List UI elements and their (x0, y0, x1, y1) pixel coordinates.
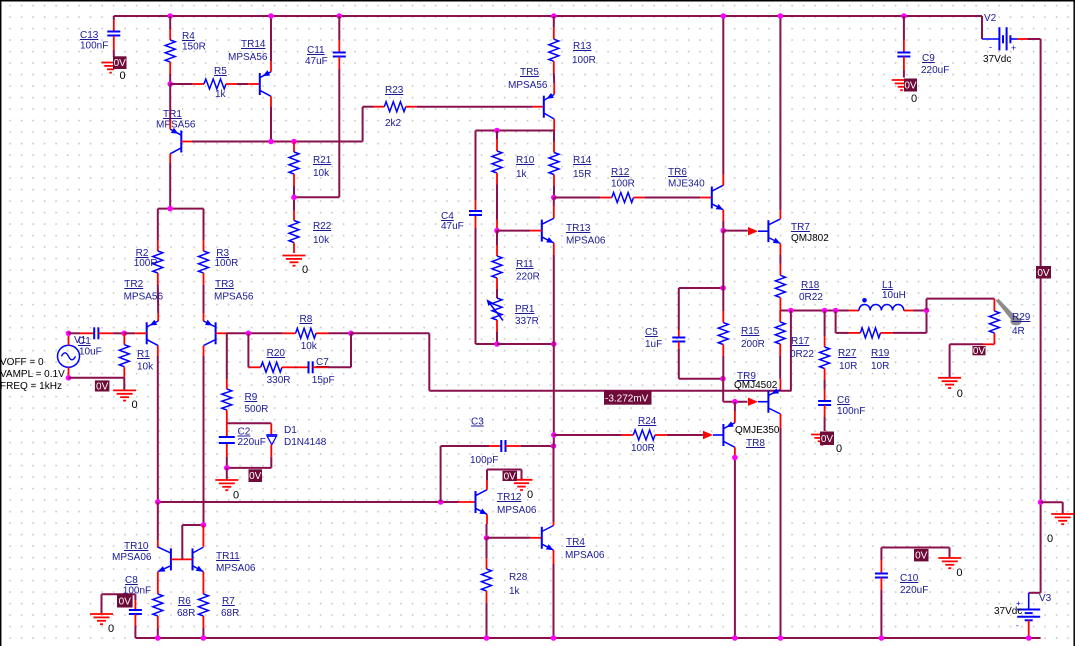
junction R8 right / C7 branch (348, 331, 354, 337)
svg-text:+: + (1016, 599, 1021, 608)
svg-text:+: + (1011, 43, 1016, 53)
ground 0 below R22 (283, 256, 309, 277)
resistor R20 (261, 348, 291, 386)
resistor R23 (384, 85, 406, 129)
capacitor C8 (123, 575, 151, 614)
ground 0 right edge (1047, 514, 1074, 545)
wire TR8 base blue (713, 434, 723, 436)
svg-text:D1N4148: D1N4148 (284, 437, 327, 448)
wire R8 right pin (316, 332, 351, 334)
bias label -3.272mV (604, 391, 652, 405)
wire V1 to C1 (69, 332, 95, 334)
battery V3 37Vdc (994, 593, 1052, 630)
junction TR3 base / R8 / R20 (246, 331, 252, 337)
wire TR8 emitter up (734, 402, 736, 423)
junction C3 / TR13-TR4 column (551, 443, 557, 449)
svg-text:0: 0 (527, 489, 533, 501)
resistor R28 (482, 569, 528, 597)
wire R24 right to TR8 base (655, 434, 703, 436)
svg-text:R7: R7 (222, 596, 235, 607)
wire R4 bottom pin (169, 62, 171, 84)
junction R10/R11/TR13 base (494, 228, 500, 234)
svg-text:R20: R20 (267, 348, 286, 359)
svg-text:100R: 100R (572, 55, 596, 66)
junction top rail / C9 (901, 13, 907, 19)
wire D1 top pin (270, 423, 272, 434)
wire R14 top pin (553, 131, 555, 153)
svg-text:TR5: TR5 (520, 67, 539, 78)
wire TR14 emitter to rail (270, 16, 272, 72)
junction R4/R5/TR1 (167, 81, 173, 87)
junction bus / output tap (788, 308, 794, 314)
wire R29 bottom pin (950, 333, 995, 377)
svg-text:0V: 0V (96, 381, 109, 392)
svg-text:VOFF = 0: VOFF = 0 (0, 357, 44, 368)
svg-text:0V: 0V (249, 471, 262, 482)
wire R22 bottom pin (293, 243, 295, 254)
wire to V3 (1029, 592, 1041, 594)
transistor TR4 MPSA06 (542, 526, 605, 562)
wire ground tap right (1041, 502, 1063, 513)
wire C6 bottom pin (824, 405, 826, 431)
junction bus / R27 (822, 308, 828, 314)
junction top rail / TR7 (778, 13, 784, 19)
wire C8 bottom pin (134, 614, 136, 638)
junction TR13 emitter column (551, 341, 557, 347)
svg-text:MPSA56: MPSA56 (214, 292, 254, 303)
svg-text:MJE340: MJE340 (668, 179, 705, 190)
junction C2 / D1 / ground (224, 465, 230, 471)
wire R11 top pin (496, 231, 498, 256)
transistor TR12 MPSA06 (476, 490, 537, 516)
svg-text:1uF: 1uF (645, 339, 662, 350)
svg-text:10k: 10k (313, 235, 330, 246)
svg-text:0V: 0V (973, 346, 986, 357)
wire C9 bottom pin (903, 57, 905, 78)
junction TR1 collector node (167, 206, 173, 212)
svg-text:R18: R18 (801, 280, 820, 291)
svg-text:0V: 0V (1037, 268, 1050, 279)
svg-text:10k: 10k (313, 168, 330, 179)
svg-text:MPSA56: MPSA56 (124, 292, 164, 303)
label 0 at C13 ground (120, 70, 126, 82)
wire R12 left (554, 197, 612, 199)
svg-text:R15: R15 (741, 326, 760, 337)
wire R14 bottom pin (553, 175, 555, 198)
svg-text:0V: 0V (821, 434, 834, 445)
svg-text:10k: 10k (137, 362, 154, 373)
ground 0 below C6 (811, 435, 842, 456)
wire C2 top pin (226, 423, 228, 436)
wire TR13 emitter down (553, 243, 555, 344)
resistor R18 (775, 275, 823, 303)
svg-text:500R: 500R (245, 404, 269, 415)
resistor R6 (153, 594, 196, 619)
svg-text:0: 0 (956, 567, 962, 579)
transistor TR10 MPSA06 (112, 541, 171, 572)
svg-text:10R: 10R (871, 361, 889, 372)
viewpoint 0V at TR12 (503, 471, 518, 483)
wire R28 top pin (486, 538, 488, 569)
wire R7 bottom pin (202, 616, 204, 638)
svg-text:330R: 330R (267, 375, 291, 386)
svg-text:TR10: TR10 (124, 541, 149, 552)
viewpoint 0V at V1 ground (95, 380, 110, 392)
wire R19 right (881, 310, 927, 333)
resistor R17 (775, 322, 814, 360)
wire C13 top pin (113, 16, 115, 31)
transistor TR3 MPSA56 (204, 279, 254, 346)
junction bottom rail / TR8 (732, 635, 738, 641)
current arrow into TR7 base (748, 227, 758, 235)
wire R23 right to TR5 base (406, 106, 544, 108)
wire R1 top pin (123, 333, 125, 344)
svg-text:0: 0 (302, 264, 308, 276)
svg-text:R4: R4 (182, 31, 195, 42)
junction TR1 base wire / TR14 collector (268, 139, 274, 145)
wire TR8 collector down (734, 447, 736, 638)
wire R2 top pin (157, 209, 159, 251)
junction R24 tap (551, 432, 557, 438)
wire C3 branch (441, 446, 502, 502)
wire C3 right (506, 445, 554, 447)
wire R6 bottom pin (157, 616, 159, 638)
svg-text:C9: C9 (922, 53, 935, 64)
svg-text:R23: R23 (385, 85, 404, 96)
svg-text:FREQ = 1kHz: FREQ = 1kHz (0, 381, 62, 392)
wire TR4 collector up (553, 446, 555, 526)
wire R13 bottom / TR5 emitter (553, 61, 555, 94)
wire V1 top pin (68, 333, 70, 345)
wire TR3 base right (216, 332, 283, 334)
wire R20 branch left (248, 333, 260, 367)
wire output bus (780, 310, 849, 312)
resistor R14 (549, 153, 592, 181)
wire R22 top pin (293, 210, 295, 221)
wire R23 left (363, 107, 385, 142)
svg-text:TR6: TR6 (668, 167, 687, 178)
wire R21 bottom (293, 174, 295, 210)
junction bottom rail / R7 (201, 635, 207, 641)
svg-text:PR1: PR1 (515, 304, 535, 315)
junction TR6 emitter / TR7 base (721, 228, 727, 234)
wire TR11 emitter to R7 (202, 572, 204, 594)
svg-text:R29: R29 (1012, 312, 1031, 323)
wire C10 top branch (881, 548, 949, 558)
svg-text:0: 0 (836, 443, 842, 455)
wire output tap down to output wire (790, 311, 792, 391)
potentiometer PR1 (487, 298, 539, 327)
wire TR13 collector (553, 198, 555, 219)
wire TR9 emitter pin (779, 379, 781, 390)
wire TR7 base blue (758, 230, 768, 232)
resistor R19 (860, 328, 889, 372)
junction V1 minus node (66, 375, 72, 381)
viewpoint 0V at C9 (904, 79, 917, 92)
resistor R22 (289, 221, 332, 247)
ground 0 below R1 (113, 390, 138, 411)
svg-text:C1: C1 (78, 336, 91, 347)
svg-text:QMJ802: QMJ802 (791, 233, 829, 244)
wire L1 right pin (904, 310, 927, 312)
svg-text:337R: 337R (515, 316, 539, 327)
wire TR10 collector (157, 502, 159, 548)
wire R11 bottom pin (496, 278, 498, 298)
wire TR13 emitter column (553, 344, 555, 446)
ground 0 below R29 (938, 378, 963, 400)
svg-text:R1: R1 (137, 349, 150, 360)
svg-text:QMJE350: QMJE350 (735, 425, 780, 436)
svg-text:TR1: TR1 (163, 109, 182, 120)
transistor TR13 MPSA06 (542, 218, 606, 246)
junction top rail / R4 (167, 13, 173, 19)
wire C7 right (313, 333, 351, 367)
svg-text:220R: 220R (516, 272, 540, 283)
junction bus / R19 branch (833, 308, 839, 314)
svg-text:0: 0 (233, 490, 239, 502)
svg-text:47uF: 47uF (305, 56, 328, 67)
wire TR7 emitter to R18 (779, 244, 781, 276)
wire TR3 collector down (203, 346, 205, 525)
viewpoint 0V at C10 (914, 549, 929, 562)
wire R1 bottom pin (123, 367, 125, 378)
transistor TR11 MPSA06 (193, 547, 256, 574)
wire C4 bottom pin (476, 216, 498, 344)
svg-text:0: 0 (911, 93, 917, 105)
svg-text:R10: R10 (516, 155, 535, 166)
svg-text:R19: R19 (871, 348, 890, 359)
svg-text:1k: 1k (516, 169, 528, 180)
wire C10 top pin (880, 548, 882, 574)
svg-text:R28: R28 (509, 572, 528, 583)
svg-text:100nF: 100nF (80, 41, 108, 52)
wire R24 left (554, 434, 634, 436)
svg-text:MPSA06: MPSA06 (112, 552, 152, 563)
wire R19 branch (836, 311, 861, 333)
wire TR12 collector to ground (487, 470, 522, 490)
svg-text:V2: V2 (984, 13, 997, 24)
transistor TR9 QMJ4502 (734, 371, 781, 414)
svg-text:VAMPL = 0.1V: VAMPL = 0.1V (0, 369, 65, 380)
svg-text:10uH: 10uH (882, 290, 906, 301)
svg-text:220uF: 220uF (921, 65, 949, 76)
wire C5 bottom branch (679, 342, 723, 379)
wire C9 top pin (903, 16, 905, 53)
svg-text:C13: C13 (80, 30, 99, 41)
diode D1 D1N4148 (266, 425, 326, 448)
svg-text:R13: R13 (573, 41, 592, 52)
resistor R3 (199, 248, 239, 273)
svg-text:-: - (1016, 621, 1019, 630)
probe cursor at R29 (996, 299, 1022, 325)
transistor TR6 MJE340 (668, 167, 723, 210)
wire TR7 collector to rail (779, 16, 781, 219)
wire TR1 emitter (169, 84, 171, 129)
viewpoint 0V at C2 ground (249, 469, 263, 482)
viewpoint 0V on negative column (1036, 266, 1051, 279)
wire ground stem C2 (226, 468, 228, 480)
junction bottom rail / R6 (155, 635, 161, 641)
wire C11 top pin (338, 16, 340, 52)
resistor R15 (718, 323, 765, 350)
svg-text:0R22: 0R22 (799, 292, 823, 303)
wire R13 top pin (553, 16, 555, 39)
wire C11 bottom pin (294, 57, 339, 197)
svg-text:100R: 100R (631, 443, 655, 454)
wire R12 right to TR6 base (634, 197, 712, 199)
wire R10 bottom pin (496, 173, 498, 231)
junction TR12 emitter / R28 / TR4 base (484, 535, 490, 541)
wire R17 bottom pin (779, 344, 781, 379)
viewpoint 0V at C8 (117, 594, 133, 608)
junction top rail / C11 (337, 13, 343, 19)
svg-text:MPSA06: MPSA06 (216, 563, 256, 574)
svg-text:R21: R21 (313, 155, 332, 166)
svg-text:1k: 1k (215, 89, 227, 100)
svg-text:220uF: 220uF (900, 585, 928, 596)
svg-text:0V: 0V (504, 471, 517, 482)
transistor TR8 QMJE350 (723, 421, 780, 449)
wire R18 bottom pin (779, 298, 781, 311)
inductor L1 (859, 280, 906, 311)
capacitor C10 (875, 573, 928, 596)
wire C11 tap (293, 196, 295, 198)
svg-text:C2: C2 (238, 427, 251, 438)
junction V1 plus node (66, 331, 72, 337)
ground 0 below C2 (215, 480, 239, 502)
wire R15 bottom to TR9 base corner (723, 379, 747, 402)
wire rail to V2 (981, 16, 983, 39)
svg-text:-: - (989, 42, 992, 52)
svg-text:MPSA06: MPSA06 (497, 505, 537, 516)
svg-text:R6: R6 (178, 596, 191, 607)
wire TR2 collector down (157, 346, 159, 502)
wire TR6 collector to rail (722, 16, 724, 186)
wire R8 left pin (283, 332, 296, 334)
svg-text:QMJ4502: QMJ4502 (734, 380, 778, 391)
svg-text:0V: 0V (119, 596, 132, 607)
svg-text:R24: R24 (638, 416, 657, 427)
wire bottom supply rail (135, 637, 1040, 639)
resistor R13 (549, 39, 596, 66)
resistor R27 (820, 347, 858, 372)
wire TR5 collector to C4 node (476, 130, 555, 132)
junction top rail / TR6 (721, 13, 727, 19)
junction bottom rail / V3 (1026, 635, 1032, 641)
svg-text:100R: 100R (215, 258, 239, 269)
junction tail / TR10 collector (155, 499, 161, 505)
resistor R24 (631, 416, 657, 454)
wire R10 top pin (496, 131, 498, 152)
junction R14/R12/TR13 collector (551, 195, 557, 201)
wire C4 top pin (475, 131, 477, 212)
resistor R11 (492, 256, 540, 283)
wire V1 minus to R1 bottom (69, 378, 125, 390)
svg-text:R27: R27 (838, 348, 857, 359)
transistor TR14 MPSA56 (228, 39, 271, 96)
wire base tie (171, 558, 193, 560)
junction top rail / TR14 (268, 13, 274, 19)
capacitor C7 (309, 357, 335, 386)
svg-text:MPSA56: MPSA56 (508, 80, 548, 91)
wire TR1 collector to R2 R3 (158, 208, 204, 210)
wire TR11 collector pin (202, 525, 204, 547)
capacitor C3 (470, 417, 506, 467)
junction top rail / R13 (551, 13, 557, 19)
svg-text:10uF: 10uF (79, 347, 102, 358)
transistor TR2 MPSA56 (124, 279, 164, 346)
wire TR6 emitter down (722, 210, 724, 231)
wire TR2 collector to TR12 base (158, 501, 476, 503)
svg-text:100R: 100R (134, 258, 158, 269)
svg-text:-3.272mV: -3.272mV (605, 394, 649, 405)
junction bottom rail / TR9 (778, 635, 784, 641)
transistor TR1 MPSA56 (156, 109, 196, 154)
wire C2 bottom pin (226, 444, 228, 468)
wire L1 left pin (849, 310, 859, 312)
viewpoint 0V at R29 (973, 346, 986, 357)
svg-text:C11: C11 (307, 45, 325, 56)
ground 0 below C13 (101, 63, 119, 73)
wire TR1 base (181, 141, 362, 143)
resistor R12 (611, 167, 635, 203)
junction negative column / ground tap (1038, 499, 1044, 505)
svg-text:C7: C7 (316, 357, 329, 368)
junction TR8 emitter / TR9 base (732, 399, 738, 405)
svg-text:100nF: 100nF (837, 406, 865, 417)
svg-text:C6: C6 (837, 395, 850, 406)
current arrow into TR8 base (703, 431, 713, 439)
junction C5 bottom / R15 bottom (720, 376, 726, 382)
svg-text:1k: 1k (509, 586, 521, 597)
wire R4 top pin (169, 16, 171, 40)
wire C5 top branch (679, 288, 723, 338)
capacitor C5 (645, 327, 685, 350)
resistor R10 (492, 151, 535, 180)
wire output to R29 (927, 299, 995, 311)
viewpoint 0V at C6 (820, 432, 834, 446)
resistor R7 (198, 594, 239, 619)
svg-text:TR2: TR2 (124, 279, 143, 290)
svg-text:TR14: TR14 (241, 39, 266, 50)
wire TR1 collector (169, 154, 171, 209)
resistor R4 (165, 31, 206, 62)
svg-text:0: 0 (120, 70, 126, 82)
svg-text:R17: R17 (791, 336, 810, 347)
junction C5 top / TR7 base column (720, 285, 726, 291)
svg-text:TR12: TR12 (497, 492, 522, 503)
wire TR9 base blue (758, 401, 768, 403)
wire negative column (1040, 39, 1042, 593)
capacitor C9 (897, 53, 949, 77)
svg-text:150R: 150R (182, 42, 206, 53)
svg-text:47uF: 47uF (441, 221, 464, 232)
junction TR8 collector column (732, 455, 738, 461)
wire C13 bottom pin (113, 36, 115, 57)
junction TR3 collector / TR11 (201, 522, 207, 528)
wire PR1 bottom pin (496, 320, 498, 344)
wire C10 bottom pin (880, 578, 882, 639)
junction bottom rail / TR4 (551, 635, 557, 641)
wire R9 bottom pin (226, 410, 228, 423)
capacitor C4 (441, 211, 482, 232)
svg-text:R8: R8 (300, 314, 313, 325)
svg-text:TR7: TR7 (791, 222, 810, 233)
resistor R21 (289, 152, 332, 179)
svg-text:2k2: 2k2 (385, 118, 402, 129)
svg-text:200R: 200R (741, 339, 765, 350)
wire C4 node to TR13 emitter (497, 343, 554, 345)
